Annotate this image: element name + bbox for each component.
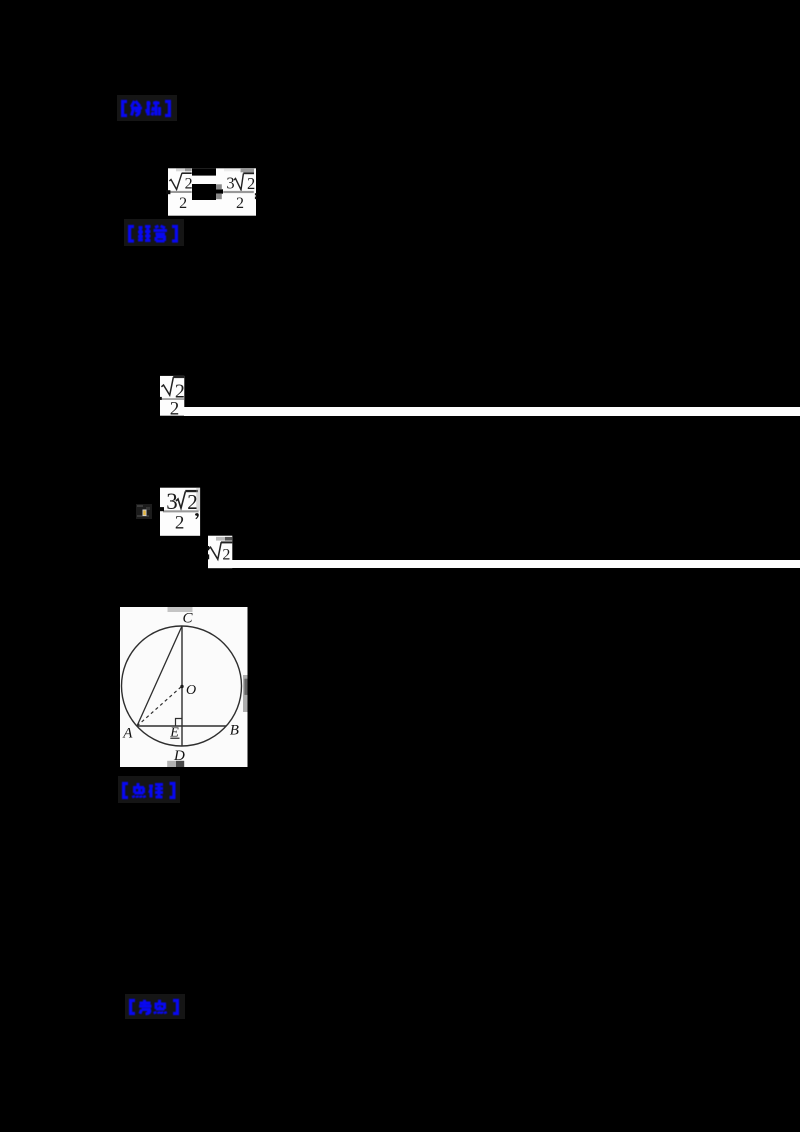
circle	[122, 626, 242, 746]
tick left edge	[166, 190, 170, 194]
grey columns beside arm	[216, 184, 222, 189]
left fraction bar	[168, 191, 192, 193]
jpeg grey bars top-left	[176, 169, 185, 172]
formula image 3 : -3sqrt(2)/2,	[160, 488, 200, 536]
small icon with yellow dot	[136, 504, 153, 520]
chord CA	[137, 626, 182, 726]
center O dot	[180, 685, 183, 688]
fraction bar	[163, 510, 199, 512]
right fraction bar	[223, 191, 254, 193]
svg-text:2: 2	[247, 174, 255, 193]
black arm	[216, 189, 223, 193]
geometry figure: circle O with chords	[120, 607, 248, 767]
white strip after formula 4	[232, 560, 800, 568]
svg-text:2: 2	[236, 195, 244, 212]
svg-text:2: 2	[175, 513, 185, 534]
left radical	[169, 173, 182, 189]
formula image 2 : sqrt(2)/2	[158, 375, 188, 417]
vinculum	[221, 541, 232, 543]
vinculum	[185, 490, 198, 492]
label 【考点】 blue bold tag 4	[128, 998, 182, 1016]
grey smudge right edge	[243, 675, 248, 712]
left sqrt vinculum	[182, 172, 192, 174]
svg-text:2: 2	[179, 195, 187, 212]
formula image 1 : sqrt(2)/2 ■ 3sqrt(2)/2	[166, 167, 258, 217]
diameter CD	[181, 626, 183, 747]
svg-text:C: C	[183, 610, 194, 626]
formula image 4 : sqrt(2)	[205, 535, 235, 570]
svg-text:A: A	[122, 726, 133, 742]
dashed AO	[137, 687, 181, 726]
vinculum	[173, 376, 184, 378]
svg-text:3: 3	[166, 489, 178, 514]
svg-text:O: O	[186, 683, 196, 698]
black redaction rect main	[192, 184, 216, 200]
fraction bar	[160, 398, 184, 400]
tick left edge	[160, 397, 162, 400]
minus remnant left edge	[160, 507, 164, 511]
equals remnant left edge	[207, 546, 209, 550]
radical	[209, 542, 221, 559]
jpeg halo blocks behind labels	[117, 95, 177, 121]
label 【点评】 blue bold tag 3	[121, 781, 177, 801]
svg-text:2: 2	[222, 547, 230, 564]
radical	[161, 377, 173, 395]
grey blocks top	[216, 537, 225, 541]
chord AB	[137, 725, 227, 727]
radical	[176, 491, 185, 508]
svg-text:2: 2	[185, 175, 193, 192]
label 【解答】 blue bold tag 2	[127, 224, 181, 244]
svg-text:3: 3	[226, 173, 234, 192]
black redaction rect top	[192, 168, 216, 175]
right vinculum	[243, 172, 254, 174]
grey top bars right	[224, 169, 240, 172]
comma	[195, 513, 199, 519]
label 【分析】 blue bold tag 1	[120, 99, 174, 119]
right radical	[234, 174, 243, 190]
right angle mark at E	[176, 719, 183, 727]
svg-text:B: B	[230, 723, 239, 739]
marks right edge	[255, 193, 257, 195]
white strip after formula 2	[184, 407, 800, 415]
grey smudge top	[168, 607, 193, 612]
svg-text:2: 2	[170, 399, 180, 417]
grey column right	[196, 488, 200, 511]
grey blocks bottom under D	[167, 761, 176, 767]
